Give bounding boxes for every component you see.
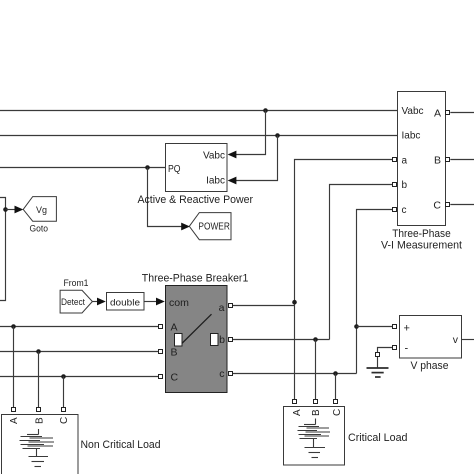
block Q1 Three-Phase Breaker1: [166, 286, 228, 393]
node junction Vg: [3, 207, 8, 212]
pin labels A B C rotated (Non Critical Load): [9, 417, 70, 424]
wire drop to Non Critical Load A: [13, 327, 15, 408]
node junction c / V phase: [354, 324, 359, 329]
wire net a (V-I a to breaker a to Critical Load A): [233, 160, 392, 401]
pin marks V-I right A B C: [446, 111, 450, 207]
wire Iabc bus (net to V-I Iabc input): [0, 135, 398, 137]
wire Vg net from left edge: [0, 198, 6, 301]
svg-text:a: a: [402, 156, 408, 167]
svg-text:Vabc: Vabc: [402, 106, 424, 117]
wire net c (V-I c to breaker c): [233, 210, 392, 374]
node junction a: [292, 300, 297, 305]
svg-text:com: com: [169, 297, 189, 309]
svg-text:A: A: [434, 108, 441, 120]
svg-text:Iabc: Iabc: [206, 176, 225, 187]
svg-text:Goto: Goto: [30, 223, 49, 234]
svg-text:Detect: Detect: [61, 297, 85, 308]
svg-text:C: C: [59, 417, 70, 424]
svg-text:+: +: [404, 323, 410, 335]
node junction c: [333, 371, 338, 376]
label Goto: [30, 223, 49, 234]
wire drop to Critical Load B: [315, 340, 317, 401]
wire branch to POWER goto: [148, 168, 191, 231]
svg-text:From1: From1: [64, 278, 89, 289]
node junction A bus: [11, 324, 16, 329]
wire V-I output C: [450, 204, 474, 206]
goto tag POWER: [189, 213, 231, 240]
wire phase A bus: [0, 326, 158, 328]
svg-text:Vabc: Vabc: [203, 150, 225, 161]
block U3 V phase measurement: [400, 316, 462, 359]
wire phase C bus: [0, 376, 158, 378]
block Critical Load: [284, 407, 345, 466]
svg-text:B: B: [434, 155, 441, 167]
svg-text:V-I Measurement: V-I Measurement: [381, 240, 462, 252]
svg-text:Three-Phase Breaker1: Three-Phase Breaker1: [142, 273, 249, 285]
pin marks Critical Load A B C: [293, 400, 338, 404]
wire V-I output B: [450, 159, 474, 161]
node junction b: [313, 337, 318, 342]
label V phase: [411, 360, 449, 372]
block U2 Active & Reactive Power (PQ): [166, 144, 228, 192]
svg-text:B: B: [311, 409, 322, 416]
label Non Critical Load: [81, 439, 161, 451]
wire V phase output v: [462, 339, 474, 341]
svg-text:A: A: [9, 417, 20, 424]
wire double to breaker com: [144, 298, 165, 306]
svg-text:Iabc: Iabc: [402, 131, 421, 142]
pin marks V-I left a b c: [393, 158, 397, 212]
svg-text:A: A: [292, 409, 303, 416]
svg-text:C: C: [171, 372, 179, 384]
svg-text:c: c: [219, 368, 224, 380]
svg-text:A: A: [171, 322, 178, 334]
svg-text:Vg: Vg: [36, 205, 47, 216]
label Three-Phase Breaker1: [142, 273, 249, 285]
label Three-Phase V-I Measurement: [381, 228, 462, 252]
svg-text:C: C: [433, 200, 441, 212]
load icon (Critical Load): [298, 419, 331, 458]
node junction B bus: [36, 349, 41, 354]
wire branch to V phase plus: [357, 326, 393, 328]
pin marks breaker left A B C: [159, 325, 163, 379]
svg-text:Non Critical Load: Non Critical Load: [81, 439, 161, 451]
block data-type conversion double: [107, 293, 145, 311]
label Active & Reactive Power: [138, 194, 254, 206]
pin marks breaker right a b c: [229, 304, 233, 376]
svg-text:a: a: [219, 302, 225, 314]
node junction PQ/POWER: [145, 165, 150, 170]
wire drop to Non Critical Load B: [38, 352, 40, 408]
pin marks Non Critical Load A B C: [12, 408, 66, 412]
svg-text:C: C: [332, 409, 343, 416]
label Critical Load: [348, 432, 408, 444]
wire V-I output A: [450, 112, 474, 114]
block U1 Three-Phase V-I Measurement: [398, 92, 446, 226]
pin labels A B C rotated (Critical Load): [292, 409, 343, 416]
breaker switch lever: [181, 314, 212, 344]
wire branch to Vg goto: [6, 206, 24, 214]
svg-text:Critical Load: Critical Load: [348, 432, 408, 444]
svg-text:PQ: PQ: [168, 163, 181, 175]
block Non Critical Load: [2, 415, 79, 474]
svg-text:Active & Reactive Power: Active & Reactive Power: [138, 194, 254, 206]
svg-text:double: double: [110, 297, 140, 308]
wire drop to Non Critical Load C: [63, 377, 65, 408]
wire PQ output to left edge: [0, 167, 165, 169]
svg-text:b: b: [402, 180, 408, 191]
wire Iabc branch to PQ: [228, 136, 278, 185]
wire Vabc bus (net to V-I Vabc input): [0, 110, 398, 112]
pin marks V phase + -: [393, 325, 397, 350]
svg-text:v: v: [453, 334, 459, 346]
wire net b (V-I b to breaker b): [233, 185, 392, 340]
node junction Vabc/PQ: [263, 108, 268, 113]
wire Detect to double: [93, 298, 106, 306]
svg-text:POWER: POWER: [198, 222, 230, 233]
load icon (Non Critical Load): [20, 429, 55, 467]
svg-text:Three-Phase: Three-Phase: [392, 228, 451, 240]
svg-text:b: b: [219, 334, 225, 346]
wire Vabc branch to PQ: [228, 111, 266, 159]
node junction Iabc/PQ: [275, 133, 280, 138]
svg-text:V phase: V phase: [411, 360, 449, 372]
svg-text:c: c: [402, 205, 407, 216]
from tag Detect (From1): [60, 290, 92, 313]
svg-text:-: -: [405, 343, 409, 355]
node junction C bus: [61, 374, 66, 379]
label From1: [64, 278, 89, 289]
ground: [367, 357, 389, 377]
breaker contact rectangles: [175, 334, 219, 347]
wire drop to Critical Load C: [335, 374, 337, 401]
wire V phase minus to ground: [378, 348, 393, 353]
goto tag Vg: [23, 197, 56, 222]
wire phase B bus: [0, 351, 158, 353]
svg-text:B: B: [171, 347, 178, 359]
ground pin mark: [376, 353, 380, 357]
svg-text:B: B: [35, 417, 46, 424]
